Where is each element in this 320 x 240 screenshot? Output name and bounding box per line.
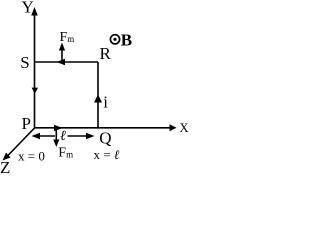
loop side QR (right) wire bbox=[97, 62, 99, 128]
svg-text:Y: Y bbox=[22, 0, 34, 17]
svg-text:Q: Q bbox=[99, 129, 111, 148]
X axis wire bbox=[35, 127, 174, 129]
svg-text:P: P bbox=[22, 114, 31, 133]
dimension double arrow right segment bbox=[68, 135, 93, 137]
svg-text:X: X bbox=[180, 121, 189, 135]
current arrowhead on SP (left side, pointing down) bbox=[32, 88, 38, 94]
Y axis arrowhead bbox=[31, 7, 38, 16]
Y axis wire bbox=[34, 10, 36, 128]
current arrowhead on PQ (bottom side, pointing right) bbox=[54, 125, 63, 132]
Z axis wire bbox=[5, 128, 35, 159]
svg-text:i: i bbox=[103, 93, 108, 112]
X axis arrowhead bbox=[170, 124, 177, 131]
svg-text:R: R bbox=[100, 44, 112, 63]
force Fm (bottom) arrow bbox=[55, 129, 57, 144]
svg-text:S: S bbox=[20, 53, 29, 72]
loop side SR (top) wire bbox=[35, 61, 99, 63]
current arrowhead on SR (pointing left) bbox=[57, 59, 66, 66]
svg-text:x = 0: x = 0 bbox=[18, 148, 45, 163]
current arrowhead on QR (pointing up) bbox=[94, 95, 102, 103]
svg-text:Z: Z bbox=[0, 158, 10, 175]
svg-text:ℓ: ℓ bbox=[60, 129, 66, 144]
svg-text:x = ℓ: x = ℓ bbox=[94, 147, 120, 162]
field symbol circle-dot B bbox=[110, 35, 119, 44]
Z axis arrowhead bbox=[3, 153, 11, 161]
svg-text:B: B bbox=[121, 30, 132, 49]
dimension double arrow (length l) left segment bbox=[34, 135, 56, 137]
force Fm (top) arrow bbox=[61, 46, 63, 62]
